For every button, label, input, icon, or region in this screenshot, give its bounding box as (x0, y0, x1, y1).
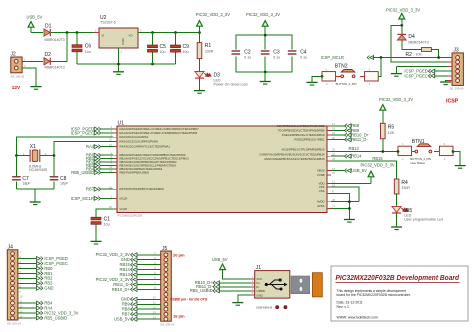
svg-text:330R: 330R (205, 49, 214, 53)
LED D3 (195, 59, 248, 87)
terminal RB2 J4 (18, 276, 53, 281)
svg-text:MCLR: MCLR (120, 196, 128, 200)
terminal RB1 J4 (18, 271, 53, 276)
capacitor C7 (12, 156, 31, 190)
capacitor C6 (72, 33, 91, 65)
svg-text:PGEC2/RPB10/D+/CTED11/RB10: PGEC2/RPB10/D+/CTED11/RB10 (282, 133, 325, 137)
terminal RA4 J4 (18, 305, 53, 310)
title block frame (331, 266, 468, 321)
wire gnd row to J3 pin3 (396, 66, 452, 68)
capacitor C4 (287, 49, 307, 59)
svg-text:ICSP_MCLR: ICSP_MCLR (71, 196, 94, 201)
terminal ICSP_PGED U1 (71, 126, 113, 131)
svg-text:BTN2: BTN2 (335, 63, 348, 69)
svg-text:USB_5V: USB_5V (114, 317, 130, 322)
svg-text:RB5_USBID: RB5_USBID (44, 315, 67, 320)
svg-text:VI: VI (102, 34, 105, 38)
terminal RB5_USBID J4 (18, 315, 67, 320)
wire BTN2 left to ground (312, 76, 322, 82)
terminal PIC32_VDD_3_3V J5 pin6 (96, 277, 161, 282)
wire J3 pin6 to ground (446, 81, 452, 82)
svg-text:TS2937-5: TS2937-5 (100, 20, 116, 24)
terminal RB7 J5 (122, 312, 161, 317)
terminal GND J5 pin2 (121, 257, 161, 262)
connector J4 (7, 245, 23, 326)
svg-text:SIL-100-02: SIL-100-02 (10, 74, 24, 78)
ground under D3 (194, 78, 205, 93)
svg-text:10u: 10u (104, 222, 110, 226)
terminal RB0 (86, 153, 113, 158)
svg-text:16 pin: 16 pin (173, 314, 185, 319)
svg-text:Power On Green Led: Power On Green Led (214, 83, 248, 87)
junction AVDD/VSS (348, 200, 351, 203)
junction BTN1 pin4 (452, 150, 455, 153)
svg-text:C4: C4 (300, 49, 307, 55)
ground under J2 (31, 87, 42, 90)
svg-text:USB_5V: USB_5V (212, 257, 228, 262)
svg-text:10: 10 (19, 295, 22, 299)
junction 3.3V rail at R1 (198, 31, 201, 34)
ground J3 pin3 (391, 67, 402, 77)
terminal USB_5V VBUS (331, 168, 367, 173)
USB plug body orange (312, 273, 322, 297)
terminal RB1 (86, 156, 113, 161)
junction U2 gnd rail (117, 63, 120, 66)
svg-text:GND: GND (121, 38, 125, 44)
description text (337, 289, 411, 297)
resistor R2 (406, 48, 432, 58)
connector J5 (153, 246, 175, 327)
power flag PIC32_VDD_3_3V at VDD pin (361, 163, 395, 184)
svg-text:ICSP_PGEC: ICSP_PGEC (404, 73, 427, 78)
wire D1 cathode to U2 VI (51, 32, 99, 34)
junction vdd arrow/diode (400, 24, 403, 27)
svg-text:USB-MINI-B: USB-MINI-B (256, 306, 272, 310)
junction BTN1 pin2 (397, 150, 400, 153)
ground crystal (30, 202, 41, 205)
svg-text:10u: 10u (85, 50, 91, 54)
junction node C6 top (76, 31, 79, 34)
power flag PIC32_VDD_3_3V top right (386, 7, 420, 25)
junction loop top (264, 34, 267, 37)
diode D2 (44, 52, 65, 70)
power flag PIC32_VDD_3_3V above C3 (246, 12, 280, 35)
wire VCAP to C1 (96, 209, 113, 217)
svg-text:GND: GND (256, 293, 262, 297)
terminal RB0 J4 (18, 266, 53, 271)
terminal RB8 (331, 123, 360, 128)
wire AVSS pin (331, 208, 349, 210)
svg-text:D1: D1 (45, 24, 52, 30)
terminal RB10_D+ J1 (195, 280, 255, 285)
svg-text:C6: C6 (85, 44, 92, 50)
terminal RB2 (86, 159, 113, 164)
terminal RB8 J5 (122, 307, 161, 312)
svg-text:10u: 10u (183, 50, 189, 54)
svg-text:USB_5V: USB_5V (27, 15, 43, 20)
terminal ICSP_PGED J3 (404, 69, 452, 74)
wire R5 to RB13 net (382, 139, 384, 152)
wire vdd branch to J3 pin2 (391, 25, 452, 62)
svg-text:C3: C3 (273, 49, 280, 55)
svg-text:23: 23 (332, 171, 335, 175)
junction MCLR/BTN2 (380, 56, 383, 59)
svg-text:ICSP_MCLR: ICSP_MCLR (321, 55, 344, 60)
svg-text:ICSP_PGEC: ICSP_PGEC (71, 130, 94, 135)
svg-text:10u: 10u (160, 50, 166, 54)
connector J3 (448, 47, 464, 90)
svg-text:PIC32_VDD_3_3V: PIC32_VDD_3_3V (361, 163, 395, 168)
junction C9 top (174, 31, 177, 34)
svg-text:RST/INT0/TDI/RPB7/CTED3/PMD5: RST/INT0/TDI/RPB7/CTED3/PMD5 (120, 187, 165, 191)
terminal RB10_D+ (331, 132, 370, 137)
LED D5 (392, 194, 443, 222)
svg-text:RB5/TMS/RPB5/USBID: RB5/TMS/RPB5/USBID (120, 171, 150, 175)
svg-text:USBID pin - for the OTG: USBID pin - for the OTG (170, 298, 208, 302)
svg-text:CVREF/AN10/RPB14/VBUSON/SCK1/C: CVREF/AN10/RPB14/VBUSON/SCK1/CTED5/RB14 (259, 152, 325, 156)
svg-text:RB11_D-: RB11_D- (351, 137, 368, 142)
svg-text:MBR0140T3: MBR0140T3 (408, 40, 428, 44)
junction node D2 top (66, 31, 69, 34)
svg-text:SIL-100-14: SIL-100-14 (7, 321, 21, 325)
svg-text:AVSS: AVSS (317, 204, 324, 208)
svg-text:WWW: www.lookittech.com: WWW: www.lookittech.com (337, 315, 378, 319)
wire D5 to ground (396, 213, 398, 227)
svg-text:0.1u: 0.1u (244, 56, 251, 60)
wire decoupling loop (236, 35, 292, 72)
terminal RA4 (86, 144, 113, 149)
wire RB13 net to BTN1 (331, 146, 398, 151)
svg-text:C2: C2 (244, 49, 251, 55)
terminal RB9 (331, 128, 360, 133)
terminal GND J4 (18, 286, 54, 291)
svg-text:PGED2/RPB11/D-/RB11: PGED2/RPB11/D-/RB11 (294, 138, 325, 142)
wire crystal ground rail (16, 189, 54, 202)
terminal RB11_D- J1 (196, 284, 255, 289)
terminal PIC32_VDD_3_3V J4 (18, 310, 79, 315)
terminal RB3 (86, 163, 113, 168)
wire U2 gnd down (118, 48, 120, 64)
microcontroller U1 (109, 121, 335, 218)
terminal RB5_USBID J1 (190, 288, 255, 293)
svg-text:PIC32_VDD_3_3V: PIC32_VDD_3_3V (246, 12, 280, 17)
junction X1 right (53, 154, 56, 157)
terminal RB4 J4 (18, 301, 53, 306)
ground J1 (232, 303, 243, 306)
junction C5 bottom (151, 63, 154, 66)
svg-text:PIC32_VDD_3_3V: PIC32_VDD_3_3V (196, 12, 230, 17)
wire OSC1 to crystal (16, 137, 113, 155)
svg-text:10K: 10K (388, 131, 395, 135)
svg-text:RB10_D+: RB10_D+ (112, 287, 130, 292)
USB plug shield (291, 276, 310, 294)
ground J3 pin6 (440, 82, 451, 85)
ground BTN2 (307, 82, 318, 85)
svg-text:R1: R1 (205, 43, 212, 49)
connector J2 (10, 52, 26, 79)
junction MCLR/R2 (437, 56, 440, 59)
svg-text:Date: 23-12-2011: Date: 23-12-2011 (337, 301, 363, 305)
push button BTN2 (322, 63, 378, 86)
wire R2 to MCLR net (431, 50, 438, 58)
svg-text:RB7: RB7 (86, 187, 95, 192)
junction R5/RB13 (381, 150, 384, 153)
svg-text:AN11/RPB13/CTPLS/PMRD/RB13: AN11/RPB13/CTPLS/PMRD/RB13 (281, 148, 324, 152)
svg-text:R4: R4 (401, 180, 408, 186)
svg-text:HC49/SMD: HC49/SMD (29, 168, 48, 172)
terminal RB14 (331, 154, 362, 159)
power flag PIC32_VDD_3_3V above R5 (379, 97, 413, 124)
svg-text:TCK/RPB8/SCL1/CTED10/PMD4/RB8: TCK/RPB8/SCL1/CTED10/PMD4/RB8 (277, 124, 325, 128)
svg-text:This design implements a simpl: This design implements a simple developm… (337, 289, 407, 293)
terminal RB3 J4 (18, 281, 53, 286)
wire J2 pin2 to ground (22, 64, 36, 87)
svg-text:Rev: v 1: Rev: v 1 (337, 305, 350, 309)
terminal ICSP_PGEC U1 (71, 130, 113, 135)
svg-text:GND: GND (44, 286, 53, 291)
svg-text:BUTTON_4_PIN: BUTTON_4_PIN (410, 157, 431, 161)
capacitor C5 (148, 33, 167, 65)
svg-text:X1: X1 (30, 144, 36, 150)
svg-text:RB5_USBID: RB5_USBID (71, 170, 94, 175)
svg-text:SIL-100-06: SIL-100-06 (450, 87, 464, 91)
svg-text:ICSP: ICSP (446, 98, 459, 104)
wire U2 output rail (138, 32, 200, 34)
terminal RB5_USBID (71, 170, 113, 175)
wire D2 cathode up to 5V rail (51, 33, 67, 62)
svg-text:USB_5V: USB_5V (351, 168, 367, 173)
wire BTN2 right up to MCLR (378, 58, 381, 77)
capacitor C2 (231, 49, 251, 59)
terminal RB13 J5 (120, 272, 161, 277)
wire MCLR net to J3 pin1 (373, 57, 452, 59)
svg-text:D4: D4 (408, 34, 415, 40)
wire RB15 net to R4 (331, 156, 397, 179)
svg-text:330R: 330R (401, 186, 410, 190)
wire OSC2 to crystal (54, 142, 113, 156)
terminal RB15 J5 (120, 262, 161, 267)
capacitor C9 (171, 33, 190, 65)
terminal RB10_D+ J5 (112, 287, 161, 292)
ground C1 (91, 241, 102, 244)
marker dot 1 (275, 305, 279, 309)
terminal ICSP_PGEC J3 (404, 73, 452, 78)
svg-text:VSS: VSS (319, 189, 325, 193)
svg-text:RB14: RB14 (351, 154, 362, 159)
svg-text:0.1u: 0.1u (273, 56, 280, 60)
wire J1 GND to ground (238, 295, 255, 303)
terminal ICSP_PGED J4 (18, 256, 68, 261)
marker dot 2 (284, 305, 288, 309)
svg-text:C5: C5 (160, 44, 167, 50)
terminal PIC32_VDD_3_3V J5 pin1 (96, 252, 161, 257)
terminal GND J5 pin10 (121, 297, 161, 302)
ground rail under power section (77, 63, 176, 65)
svg-text:PIC32_VDD_3_3V: PIC32_VDD_3_3V (386, 7, 420, 12)
terminal RB7 (86, 187, 113, 192)
terminal ICSP_PGEC J4 (18, 261, 68, 266)
svg-text:18pF: 18pF (22, 182, 31, 186)
push button BTN1 (398, 139, 453, 165)
svg-text:RA3/OSC2/CLKO/RPA3/PMA0: RA3/OSC2/CLKO/RPA3/PMA0 (120, 140, 159, 144)
wire AVDD pin (331, 201, 359, 203)
svg-text:VUSB: VUSB (317, 173, 325, 177)
svg-text:User Button: User Button (410, 161, 425, 165)
wire J2 pin1 to D2 (22, 57, 43, 61)
junction X1 left (15, 154, 18, 157)
junction AVSS (348, 207, 351, 210)
svg-text:TDO/RPB9/SDA1/CTED4/PMD3/RB9: TDO/RPB9/SDA1/CTED4/PMD3/RB9 (278, 128, 325, 132)
svg-text:AN9/C3INA/RPB15/SCK2/CTED6/PMC: AN9/C3INA/RPB15/SCK2/CTED6/PMCS1/RB15 (264, 157, 325, 161)
wire VSS pin 8 (331, 193, 349, 219)
svg-text:20 pin: 20 pin (173, 253, 185, 258)
resistor R1 (197, 33, 214, 59)
diode D1 (44, 24, 65, 43)
svg-text:BUTTON_4_PIN: BUTTON_4_PIN (336, 82, 357, 86)
diode D4 (397, 25, 428, 44)
svg-text:D2: D2 (45, 52, 52, 58)
regulator U2 (94, 15, 143, 54)
svg-text:VCAP: VCAP (120, 207, 128, 211)
power flag USB_5V above J1 (212, 257, 255, 279)
svg-text:PIC32_VDD_3_3V: PIC32_VDD_3_3V (379, 97, 413, 102)
USB connector J1 (251, 265, 290, 298)
terminal RB11_D- J5 (113, 282, 160, 287)
svg-text:MBR0140T3: MBR0140T3 (45, 38, 65, 42)
svg-text:SIL-100-14: SIL-100-14 (160, 323, 174, 327)
svg-text:R5: R5 (388, 125, 395, 131)
svg-text:18pF: 18pF (60, 182, 69, 186)
wire VSS pin 19 (331, 187, 359, 202)
ground BTN1 (455, 166, 466, 169)
svg-text:RB5_USBID: RB5_USBID (190, 288, 213, 293)
ground D5 (391, 227, 402, 230)
title text (336, 273, 460, 283)
wire VDD pin to power arrow (331, 183, 371, 185)
svg-text:PIC32MX220F032B: PIC32MX220F032B (117, 213, 142, 217)
wire D4 to R2 (402, 40, 422, 50)
svg-text:board for the PIC32MX220F032B: board for the PIC32MX220F032B microcontr… (337, 293, 411, 297)
ground under decoupling loop (260, 72, 271, 84)
power flag USB_5V (27, 15, 43, 33)
terminal RB4 (86, 166, 113, 171)
svg-text:C9: C9 (183, 44, 190, 50)
junction BTN2 pin2 (321, 75, 324, 78)
power flag PIC32_VDD_3_3V above R1 (196, 12, 230, 32)
svg-text:RB13: RB13 (349, 146, 360, 151)
junction C5 top (151, 31, 154, 34)
capacitor C8 (50, 156, 69, 190)
ground symbol power rail (113, 64, 124, 74)
wire 5V rail to D1 (31, 32, 43, 34)
terminal RB11_D- (331, 137, 368, 142)
svg-text:0.1u: 0.1u (300, 56, 307, 60)
svg-text:12V: 12V (12, 85, 21, 90)
capacitor C1 (91, 217, 110, 227)
crystal X1 (16, 144, 54, 172)
svg-text:PIC32MX220F032B Development Bo: PIC32MX220F032B Development Board (336, 273, 460, 282)
resistor R5 (381, 123, 395, 139)
terminal RB14 J5 (120, 267, 161, 272)
svg-text:J1: J1 (256, 265, 261, 271)
terminal USB_5V J5 (114, 317, 161, 322)
ground MCU vss (344, 220, 355, 223)
svg-text:RA4/SOSCO/RPA4/T1CK/CTED9/PMA1: RA4/SOSCO/RPA4/T1CK/CTED9/PMA1 (120, 145, 171, 149)
svg-text:MBR0140T3: MBR0140T3 (45, 65, 65, 69)
terminal ICSP_MCLR U1 (71, 196, 113, 201)
terminal RB9 J5 (122, 302, 161, 307)
svg-text:10K: 10K (416, 52, 423, 56)
svg-text:User programmable Led: User programmable Led (404, 218, 443, 222)
capacitor C3 (260, 49, 280, 59)
resistor R4 (394, 179, 410, 194)
wire C1 to ground (95, 224, 97, 241)
terminal ICSP_MCLR (321, 55, 374, 60)
wire BTN1 right to ground (453, 152, 460, 166)
junction loop bottom (264, 71, 267, 74)
svg-text:RA4: RA4 (86, 144, 95, 149)
